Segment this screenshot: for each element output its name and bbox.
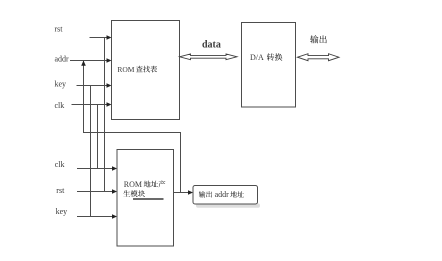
svg-text:ROM: ROM <box>124 180 142 189</box>
svg-text:key: key <box>56 207 68 216</box>
svg-text:key: key <box>55 80 67 89</box>
svg-text:D/A: D/A <box>250 53 264 62</box>
svg-text:clk: clk <box>55 160 65 169</box>
svg-text:addr: addr <box>215 190 230 199</box>
svg-text:data: data <box>202 40 221 51</box>
svg-text:rst: rst <box>55 25 64 34</box>
svg-text:ROM: ROM <box>117 65 134 74</box>
svg-text:rst: rst <box>56 186 65 195</box>
svg-text:clk: clk <box>55 101 65 110</box>
svg-text:addr: addr <box>55 55 70 64</box>
